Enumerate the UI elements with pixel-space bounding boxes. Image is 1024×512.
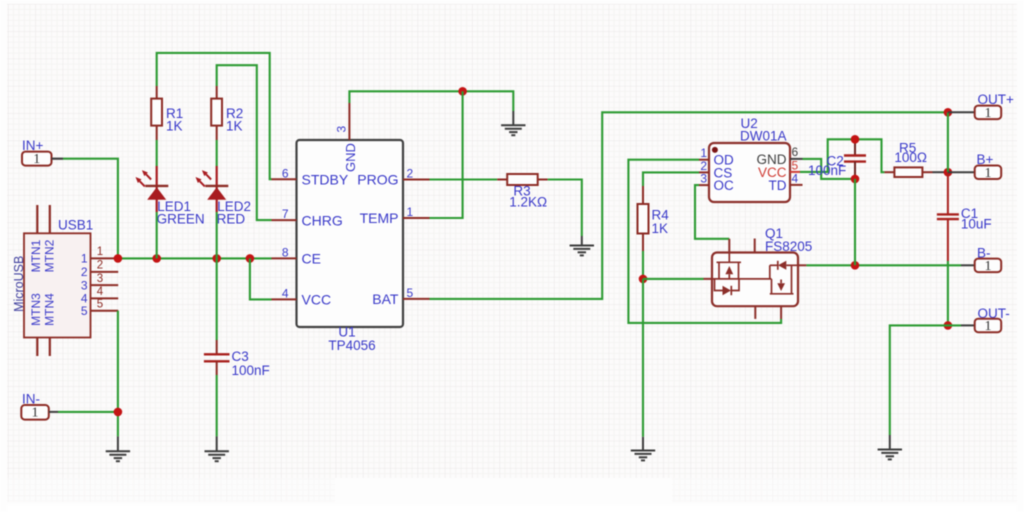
wire R3 to ground bbox=[548, 180, 582, 237]
svg-text:3: 3 bbox=[335, 126, 349, 133]
svg-text:2: 2 bbox=[97, 260, 103, 272]
svg-text:5: 5 bbox=[81, 304, 88, 318]
wire Q1 to B- bbox=[806, 264, 961, 266]
port IN+ bbox=[22, 138, 63, 167]
port IN- bbox=[21, 391, 58, 420]
svg-text:STDBY: STDBY bbox=[302, 171, 349, 187]
node junction C2 bottom bbox=[851, 175, 860, 184]
svg-text:2: 2 bbox=[407, 167, 414, 181]
svg-text:CHRG: CHRG bbox=[302, 212, 343, 228]
svg-text:1K: 1K bbox=[226, 118, 243, 133]
svg-text:6: 6 bbox=[282, 166, 289, 180]
wire C2 top to R5 bbox=[855, 139, 884, 172]
svg-text:1: 1 bbox=[985, 259, 992, 274]
wire R4 to Q1 node bbox=[642, 251, 644, 279]
node junction VCC branch bbox=[246, 254, 255, 263]
svg-text:1.2KΩ: 1.2KΩ bbox=[509, 195, 547, 210]
wire LED1 to bus bbox=[156, 212, 158, 258]
svg-text:1: 1 bbox=[81, 252, 88, 266]
ground (R4) bbox=[631, 437, 655, 461]
wire IN- to node bbox=[58, 411, 118, 413]
wire CS to R4 bbox=[643, 172, 699, 186]
pin 4 TD bbox=[790, 184, 803, 186]
svg-text:MicroUSB: MicroUSB bbox=[12, 256, 26, 312]
svg-text:RED: RED bbox=[217, 212, 246, 227]
svg-text:TP4056: TP4056 bbox=[328, 338, 375, 353]
transistor Q1 FS8205 bbox=[704, 226, 813, 319]
svg-text:6: 6 bbox=[792, 145, 799, 159]
wire bus VCC-in bbox=[118, 257, 271, 259]
svg-text:PROG: PROG bbox=[357, 172, 398, 188]
pin 6 STDBY bbox=[272, 178, 297, 180]
svg-text:MTN3: MTN3 bbox=[29, 293, 43, 326]
resistor R4 bbox=[638, 186, 670, 251]
svg-text:CE: CE bbox=[302, 251, 321, 267]
svg-text:1K: 1K bbox=[652, 221, 669, 236]
svg-text:GND: GND bbox=[343, 143, 358, 172]
wire R1 to LED1 bbox=[156, 140, 158, 166]
resistor R5 bbox=[884, 141, 932, 178]
wire TEMP riser bbox=[430, 91, 463, 218]
USB1 pin 5 bbox=[91, 310, 119, 312]
port B+ bbox=[948, 152, 1001, 181]
wire OUT- line bbox=[890, 325, 961, 435]
LED2 bbox=[196, 166, 252, 227]
svg-text:MTN4: MTN4 bbox=[43, 293, 57, 326]
wire rail R1 to STDBY bbox=[157, 53, 272, 179]
svg-text:100nF: 100nF bbox=[232, 363, 270, 378]
svg-text:1: 1 bbox=[33, 152, 40, 167]
svg-text:100nF: 100nF bbox=[808, 163, 846, 178]
resistor R2 bbox=[211, 86, 243, 140]
wire OD net bbox=[628, 160, 781, 323]
IC U1 TP4056 bbox=[272, 103, 430, 353]
pin 7 CHRG bbox=[272, 219, 297, 221]
RIGHT-SECTION bbox=[628, 92, 1014, 460]
svg-text:C3: C3 bbox=[232, 349, 249, 364]
svg-text:TEMP: TEMP bbox=[360, 210, 399, 226]
wire node to Q1 left pin bbox=[643, 278, 704, 280]
LEFT-SECTION bbox=[12, 53, 272, 461]
node junction LED2/C3 bbox=[212, 254, 221, 263]
svg-text:BAT: BAT bbox=[372, 291, 399, 307]
USB1 pin 2 bbox=[91, 271, 119, 273]
svg-text:4: 4 bbox=[792, 171, 799, 185]
USB1 pin 3 bbox=[91, 284, 119, 286]
ground (C3) bbox=[205, 436, 229, 461]
connector USB1 bbox=[12, 205, 118, 356]
wire GND rail bbox=[349, 91, 513, 111]
node junction C2/B- bbox=[851, 261, 860, 270]
wire BAT to OUT+ rail bbox=[430, 112, 948, 299]
ground (R3) bbox=[570, 236, 594, 255]
port B- bbox=[961, 245, 1001, 274]
svg-text:5: 5 bbox=[97, 299, 103, 311]
resistor R3 bbox=[497, 174, 548, 210]
svg-text:5: 5 bbox=[407, 286, 414, 300]
svg-text:8: 8 bbox=[282, 246, 289, 260]
pin 2 CS bbox=[699, 171, 709, 173]
pin 5 BAT bbox=[403, 298, 430, 300]
port OUT+ bbox=[948, 92, 1014, 121]
svg-text:1: 1 bbox=[985, 106, 992, 121]
USB1 pin 4 bbox=[91, 297, 119, 299]
pin 3 OC bbox=[699, 184, 709, 186]
wire R5 to B+ node bbox=[933, 171, 948, 173]
svg-text:MTN1: MTN1 bbox=[29, 239, 43, 272]
wire C2 bottom to B- line bbox=[854, 179, 856, 265]
wire pin5 down to IN- node bbox=[117, 311, 119, 437]
ground (USB/IN-) bbox=[106, 436, 130, 461]
svg-text:1: 1 bbox=[985, 166, 992, 181]
svg-text:USB1: USB1 bbox=[58, 218, 93, 233]
pin 2 PROG bbox=[403, 179, 430, 181]
port OUT- bbox=[961, 306, 1010, 334]
USB1 pin 1 bbox=[91, 257, 119, 259]
svg-text:1K: 1K bbox=[166, 118, 183, 133]
wire PROG to R3 bbox=[430, 178, 498, 180]
resistor R1 bbox=[151, 86, 183, 140]
wire rail R2 to CHRG bbox=[217, 65, 272, 220]
wire IN+ to bus bbox=[63, 159, 118, 259]
svg-text:4: 4 bbox=[282, 287, 289, 301]
wire VCC pin to C2 top bbox=[800, 139, 855, 172]
svg-text:DW01A: DW01A bbox=[740, 129, 787, 144]
capacitor C1 bbox=[937, 172, 992, 261]
pin 4 VCC bbox=[272, 298, 297, 300]
pin 6 GND bbox=[790, 158, 803, 160]
svg-text:10uF: 10uF bbox=[961, 216, 992, 231]
LED1 bbox=[136, 166, 205, 227]
svg-text:1: 1 bbox=[32, 406, 39, 421]
node junction IN- bbox=[114, 408, 123, 417]
wire bus to C3 bbox=[216, 258, 218, 340]
svg-text:7: 7 bbox=[282, 207, 289, 221]
wire VCC branch to U1 bbox=[250, 258, 272, 299]
svg-text:TD: TD bbox=[769, 178, 787, 193]
wire C3 to ground bbox=[216, 375, 218, 436]
svg-text:1: 1 bbox=[97, 246, 103, 258]
capacitor C3 bbox=[204, 340, 270, 378]
node junction IN+/pin1 bbox=[114, 254, 123, 263]
pin 3 GND bbox=[348, 103, 350, 140]
node junction C2 top bbox=[851, 135, 860, 144]
node junction OUT+ bbox=[944, 108, 953, 117]
svg-text:1: 1 bbox=[407, 205, 414, 219]
wire OC to Q1 gate bbox=[695, 185, 729, 239]
node junction OUT- bbox=[944, 321, 953, 330]
node junction LED1 bbox=[152, 254, 161, 263]
IC U2 DW01A bbox=[699, 116, 803, 202]
MID-SECTION bbox=[272, 87, 948, 353]
ground (GND rail) bbox=[501, 111, 525, 135]
pin 8 CE bbox=[272, 257, 297, 259]
wire C1 bottom to OUT- line bbox=[947, 261, 949, 325]
node junction B+ bbox=[944, 168, 953, 177]
node junction GND rail bbox=[458, 87, 467, 96]
pin 1 OD bbox=[699, 159, 709, 161]
pin 5 VCC bbox=[790, 171, 800, 173]
wire R2 to LED2 bbox=[216, 140, 218, 166]
ground (OUT-) bbox=[878, 435, 902, 459]
svg-text:MTN2: MTN2 bbox=[43, 239, 57, 272]
svg-text:OC: OC bbox=[714, 178, 735, 193]
pin 1 TEMP bbox=[403, 217, 430, 219]
node junction R4/Q1 bbox=[639, 275, 648, 284]
svg-text:5: 5 bbox=[792, 158, 799, 172]
svg-text:2: 2 bbox=[81, 265, 88, 279]
wire LED2 to bus bbox=[216, 212, 218, 258]
svg-text:VCC: VCC bbox=[302, 292, 332, 308]
svg-text:3: 3 bbox=[81, 278, 88, 292]
capacitor C2 bbox=[808, 139, 866, 179]
wire GND pin to C2 bottom bbox=[803, 159, 856, 179]
svg-text:4: 4 bbox=[97, 286, 104, 298]
wire node to ground bbox=[642, 279, 644, 437]
svg-text:3: 3 bbox=[700, 172, 707, 186]
svg-text:3: 3 bbox=[97, 273, 103, 285]
wire OUT+ node down to B+ bbox=[947, 112, 949, 172]
svg-text:GREEN: GREEN bbox=[157, 212, 205, 227]
svg-text:100Ω: 100Ω bbox=[894, 150, 927, 165]
svg-text:1: 1 bbox=[985, 319, 992, 334]
Q1 internals bbox=[712, 253, 798, 296]
